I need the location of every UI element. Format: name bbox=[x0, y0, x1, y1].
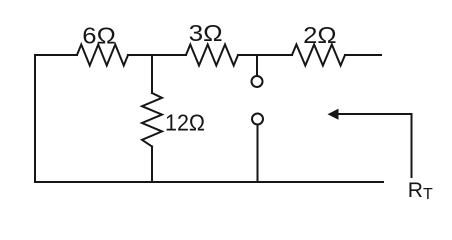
terminal circle upper bbox=[252, 76, 263, 87]
node A junction at 12ohm branch bbox=[151, 55, 153, 93]
terminal circle lower bbox=[252, 114, 263, 125]
svg-text:3Ω: 3Ω bbox=[189, 20, 223, 46]
wire: top-left segment bbox=[35, 54, 77, 56]
RT arrowhead bbox=[328, 109, 339, 120]
resistor 2ohm zigzag bbox=[292, 45, 345, 66]
svg-text:12Ω: 12Ω bbox=[165, 110, 205, 136]
wire: bottom rail bbox=[35, 181, 383, 183]
svg-text:2Ω: 2Ω bbox=[303, 22, 337, 48]
RT arrow shaft and right vertical bbox=[337, 114, 412, 177]
wire: left vertical side bbox=[34, 55, 36, 182]
wire: top-right open-ended segment bbox=[345, 54, 381, 56]
wire: 12ohm lower lead to bottom rail bbox=[151, 147, 153, 183]
wire: lower terminal stem to bottom rail bbox=[257, 126, 259, 183]
resistor 12ohm zigzag (vertical) bbox=[142, 93, 162, 147]
resistor R 6ohm zigzag bbox=[77, 45, 128, 66]
svg-text:RT: RT bbox=[408, 179, 433, 203]
svg-text:6Ω: 6Ω bbox=[82, 23, 116, 49]
wire: segment between 6ohm and 3ohm bbox=[128, 54, 186, 56]
resistor 3ohm zigzag bbox=[186, 45, 238, 66]
node B terminal stem (upper) bbox=[256, 55, 258, 75]
wire: segment between 3ohm and 2ohm bbox=[238, 54, 292, 56]
